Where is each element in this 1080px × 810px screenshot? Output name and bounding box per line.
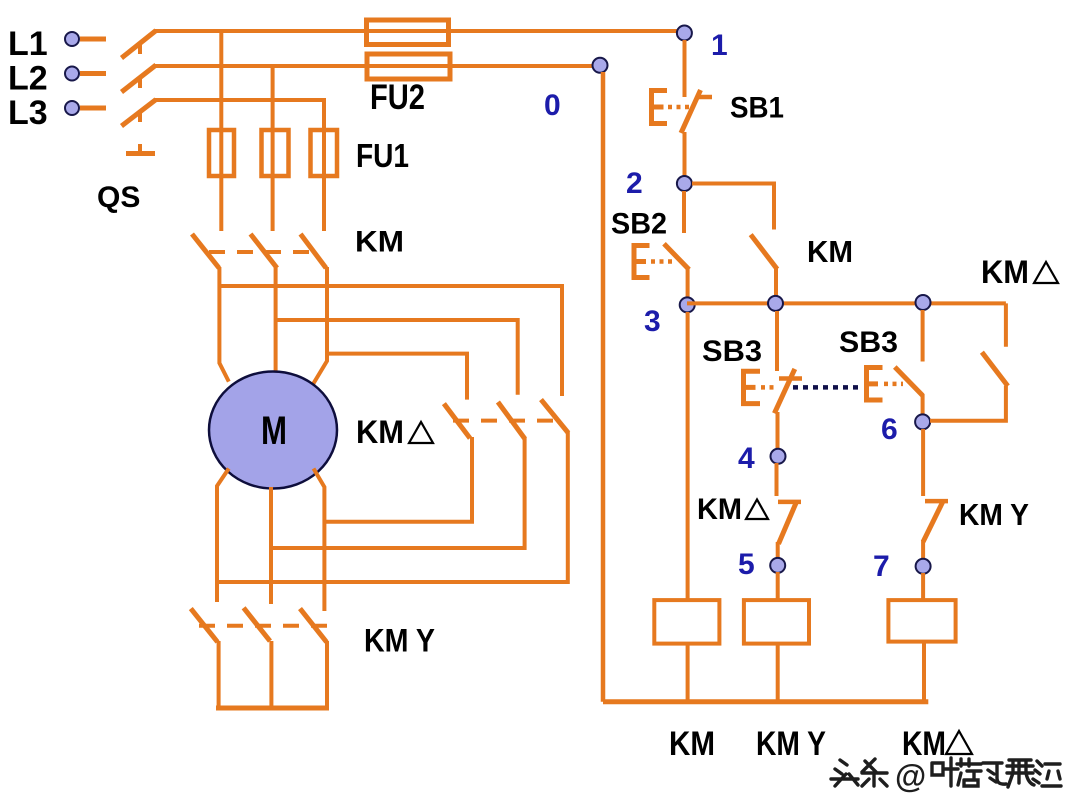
button SB3a contact bar <box>779 376 802 381</box>
terminal L2 <box>65 67 79 81</box>
svg-text:KM: KM <box>355 226 404 259</box>
node rail KM <box>768 296 783 311</box>
switch QS blade 1 <box>122 31 157 59</box>
contactor KM-Y blade 1 <box>191 609 218 642</box>
svg-text:SB3: SB3 <box>839 326 898 359</box>
wire W phase down <box>311 267 327 388</box>
contactor KM-delta blade 1 <box>444 404 470 439</box>
fuse FU1 body 2 <box>262 130 289 176</box>
wire KM coil feed <box>686 312 690 601</box>
button SB3a link dotted <box>761 385 775 390</box>
wire drop phase3 <box>322 100 326 231</box>
node 2 <box>677 176 692 191</box>
switch QS handle bar <box>126 151 155 156</box>
button SB1 blade <box>681 90 701 133</box>
fuse FU2 body 1 <box>367 20 449 45</box>
wire Y leg 2 <box>269 641 273 708</box>
coil KM-Y <box>744 600 809 644</box>
wire coil KM bottom <box>686 644 690 702</box>
node 0 <box>593 58 608 73</box>
wire L3 stub <box>80 106 106 111</box>
wire U phase down <box>219 267 228 382</box>
wire delta1 return <box>325 437 472 522</box>
node 3 <box>680 297 695 312</box>
wire Y star bar <box>216 706 329 711</box>
contactor KM main blade 2 <box>251 234 278 268</box>
fuse FU1 body 1 <box>209 130 234 176</box>
wire to SB3b <box>921 310 925 362</box>
wire node4 down <box>775 463 779 496</box>
terminal L1 <box>65 32 79 46</box>
wire branch V to delta <box>276 320 518 395</box>
button SB3b blade <box>895 367 923 396</box>
wire phase3 <box>155 98 326 102</box>
coil KM-delta <box>888 600 955 642</box>
wire rail to KM-delta aux <box>1004 303 1008 346</box>
button SB2 link dotted <box>651 259 673 264</box>
wire node1 to SB1 <box>683 40 687 97</box>
wire motor bottom mid <box>269 487 273 604</box>
contactor KM-delta blade 2 <box>498 402 525 439</box>
svg-text:KM: KM <box>669 725 715 763</box>
wire L1 stub <box>80 37 106 42</box>
button SB3a actuator <box>744 371 761 403</box>
wire delta2 return <box>271 438 525 548</box>
button SB1 link dotted <box>668 105 690 110</box>
svg-text:FU1: FU1 <box>356 137 409 174</box>
button SB1 contact bar <box>697 95 712 100</box>
contactor KM-delta link dashed <box>453 419 560 423</box>
motor M body <box>209 372 337 489</box>
button SB2 blade <box>664 244 689 270</box>
wire SB1 to node2 <box>683 132 687 177</box>
switch QS blade 2 <box>122 65 157 92</box>
contact KM-delta aux blade <box>982 352 1008 386</box>
svg-text:KM Y: KM Y <box>959 497 1029 532</box>
svg-text:7: 7 <box>873 550 890 583</box>
wire to node7 <box>921 540 925 560</box>
wire node7 to coil <box>921 573 925 601</box>
button SB3b actuator <box>867 368 883 401</box>
wire node0 drop <box>601 72 606 702</box>
wire rail node3 <box>687 301 1006 305</box>
contactor KM main blade 1 <box>192 234 219 268</box>
wire coil KM-Y bottom <box>776 644 780 702</box>
contactor KM-delta blade 3 <box>541 400 568 433</box>
node 1 <box>677 26 692 41</box>
node rail right <box>916 295 931 310</box>
svg-text:KM: KM <box>807 234 853 269</box>
contactor KM link dashed <box>209 250 318 254</box>
switch QS blade 3 <box>122 100 157 127</box>
svg-text:4: 4 <box>738 442 755 475</box>
fuse FU1 body 3 <box>311 130 338 176</box>
svg-text:SB3: SB3 <box>702 335 762 368</box>
svg-text:L3: L3 <box>8 94 48 132</box>
node 4 <box>771 449 786 464</box>
wire drop phase1 <box>219 31 223 231</box>
wire SB2 to node3 <box>686 268 690 298</box>
svg-text:@: @ <box>895 758 926 794</box>
wire node6 to KM-delta aux <box>930 386 1006 421</box>
coil KM <box>654 600 719 644</box>
wire node6 down <box>921 429 925 496</box>
wire motor bottom right <box>314 469 325 612</box>
node 7 <box>916 559 931 574</box>
wire node2 to SB2 <box>682 191 686 233</box>
svg-text:M: M <box>261 409 287 453</box>
wire delta3 return <box>217 432 568 582</box>
svg-text:FU2: FU2 <box>370 78 425 117</box>
svg-text:KM: KM <box>356 414 404 450</box>
wire SB3a to node4 <box>776 412 780 450</box>
wire to SB3a <box>775 311 779 371</box>
svg-text:QS: QS <box>97 181 140 214</box>
wire L2 stub <box>80 71 106 76</box>
wire to node5 <box>776 542 780 559</box>
mechanical link dotted black <box>793 385 863 390</box>
contactor KM-Y blade 3 <box>300 609 327 642</box>
wire motor bottom left <box>217 469 229 603</box>
svg-text:0: 0 <box>544 89 561 122</box>
wire KM aux down <box>774 268 778 297</box>
button SB1 actuator <box>652 91 668 124</box>
svg-text:KM Y: KM Y <box>364 623 435 659</box>
button SB3a blade <box>774 369 794 413</box>
wire coil KM-delta bottom <box>922 642 926 702</box>
svg-text:KM: KM <box>981 254 1029 290</box>
contact KM-delta NC bar <box>778 500 801 505</box>
wire drop phase2 <box>271 66 275 231</box>
svg-text:KM: KM <box>697 493 742 526</box>
svg-text:2: 2 <box>626 167 643 200</box>
contact KM-Y NC bar <box>925 499 948 504</box>
contactor KM-Y blade 2 <box>244 608 270 641</box>
contactor KM-Y link dashed <box>199 624 328 628</box>
contact KM-delta NC blade <box>779 501 797 544</box>
wire phase1 top <box>155 29 684 33</box>
wire bottom rail <box>603 699 928 704</box>
wire Y leg 3 <box>325 641 329 708</box>
wire phase2 <box>155 64 600 68</box>
svg-text:1: 1 <box>711 29 728 62</box>
node 6 <box>915 414 930 429</box>
wire Y leg 1 <box>217 641 221 708</box>
switch QS link dashed <box>138 42 142 152</box>
button SB2 actuator <box>634 246 650 278</box>
node 5 <box>770 558 785 573</box>
wire branch U to delta <box>219 286 562 396</box>
svg-text:6: 6 <box>881 413 898 446</box>
svg-text:L2: L2 <box>8 60 48 98</box>
button SB3b link dotted <box>884 382 903 387</box>
contact KM-Y NC blade <box>923 500 943 542</box>
contact KM aux blade <box>751 235 778 270</box>
wire branch W to delta <box>327 354 467 400</box>
contactor KM main blade 3 <box>301 234 327 268</box>
svg-text:L1: L1 <box>8 25 48 63</box>
svg-text:5: 5 <box>738 548 755 581</box>
terminal L3 <box>65 101 79 115</box>
watermark toutiao <box>831 758 1061 794</box>
svg-text:KM Y: KM Y <box>756 725 826 763</box>
wire SB3b to node6 <box>921 394 925 415</box>
wire V phase down <box>274 267 278 373</box>
fuse FU2 body 2 <box>367 54 450 79</box>
svg-text:3: 3 <box>644 305 661 338</box>
svg-text:SB1: SB1 <box>730 92 784 125</box>
svg-text:SB2: SB2 <box>611 208 667 241</box>
wire node2 branch to KM aux <box>692 184 774 230</box>
wire node5 to coil <box>776 572 780 601</box>
